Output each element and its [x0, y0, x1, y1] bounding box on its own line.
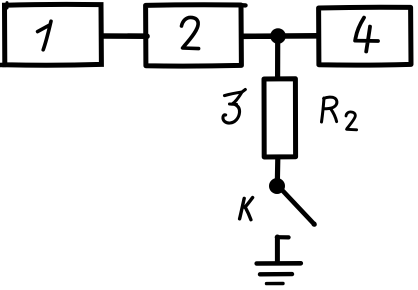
label K — [240, 198, 253, 220]
wire node-resistor — [275, 40, 280, 77]
node junction — [270, 28, 286, 44]
wire 2-node — [242, 33, 272, 39]
switch K blade — [282, 190, 317, 227]
wire node-4 — [284, 33, 318, 39]
resistor R2 — [264, 79, 296, 157]
block 4 — [319, 7, 411, 65]
ground — [257, 263, 301, 283]
label 3 — [223, 90, 245, 124]
wire to ground (stem with hook) — [277, 237, 289, 262]
switch K pivot — [269, 178, 285, 194]
wire resistor-switch — [275, 158, 281, 180]
label R2 — [322, 97, 357, 130]
block 1 — [1, 3, 102, 66]
block 2 — [146, 5, 246, 66]
wire 1-2 — [102, 33, 147, 39]
